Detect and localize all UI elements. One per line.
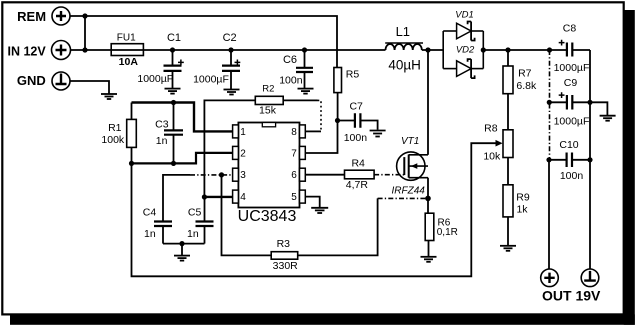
svg-text:6.8k: 6.8k [516, 80, 537, 92]
svg-text:C1: C1 [167, 32, 181, 44]
svg-text:L1: L1 [396, 24, 410, 39]
diode VD1 [443, 9, 483, 40]
resistor R9 [503, 185, 530, 246]
wire ground rail [589, 50, 591, 269]
capacitor C7 [338, 100, 378, 143]
node REM junction [82, 13, 87, 18]
node CS junction [219, 172, 224, 177]
wire CS down to R3 [222, 175, 272, 256]
ground (C6) [298, 89, 314, 94]
svg-text:4,7R: 4,7R [346, 179, 369, 191]
wire pin 3 CS line [163, 175, 190, 222]
svg-text:R9: R9 [516, 191, 530, 203]
capacitor C1 [137, 32, 183, 88]
node C8 left [547, 47, 552, 52]
svg-text:10A: 10A [119, 56, 139, 68]
ground (C7) [370, 131, 386, 137]
fuse FU1 [111, 33, 386, 68]
pin 5 [300, 190, 306, 203]
node diode out [481, 47, 486, 52]
svg-text:C10: C10 [559, 139, 578, 151]
svg-text:100k: 100k [101, 134, 125, 146]
ground (C4/C5) [174, 256, 190, 261]
wire L1 to diodes [422, 49, 443, 51]
wire R2 right to pin 8 (dotted) [283, 99, 317, 101]
node L1 out [425, 47, 430, 52]
ground (R6) [421, 257, 437, 262]
svg-text:40µH: 40µH [388, 58, 421, 73]
svg-text:C7: C7 [349, 100, 363, 112]
terminal IN 12V [7, 41, 70, 60]
wire GND terminal to ground [70, 81, 109, 94]
terminal OUT + [541, 269, 559, 287]
potentiometer R8 [483, 122, 513, 185]
svg-text:1000µF: 1000µF [193, 74, 229, 86]
wiper arrow head [496, 140, 503, 147]
svg-text:C6: C6 [283, 54, 297, 66]
svg-text:1000µF: 1000µF [554, 116, 590, 128]
ground (GND input) [101, 94, 117, 99]
terminal OUT ground [581, 269, 599, 287]
svg-text:IN 12V: IN 12V [7, 44, 46, 58]
wire R4 to gate (dash-dot) [374, 174, 404, 176]
svg-text:UC3843: UC3843 [238, 208, 297, 225]
svg-text:C8: C8 [563, 23, 577, 35]
svg-text:R4: R4 [351, 158, 365, 170]
node VCC junction [335, 118, 340, 123]
svg-text:C5: C5 [188, 207, 202, 219]
svg-text:1000µF: 1000µF [554, 62, 590, 74]
svg-text:100n: 100n [279, 74, 303, 86]
wire pin 1 to comp node [132, 103, 233, 132]
terminal REM [17, 7, 70, 25]
resistor R4 [345, 158, 375, 191]
wire VFB feedback to R8 wiper [132, 143, 500, 276]
node C4/C5 ground junction [179, 241, 184, 246]
capacitor C2 [193, 32, 240, 89]
wire pin4 [204, 196, 232, 198]
svg-text:10k: 10k [483, 151, 501, 163]
inductor L1 [385, 24, 423, 73]
svg-text:2: 2 [240, 148, 246, 159]
node C3 top [171, 100, 176, 105]
wire C9 to ground stub [590, 102, 607, 115]
node 12V junction [82, 47, 87, 52]
wire REM-to-12V vertical [84, 16, 86, 50]
node C3 bottom [171, 161, 176, 166]
resistor R3 [271, 238, 298, 272]
ground (R9) [500, 246, 516, 251]
svg-text:1: 1 [240, 127, 246, 138]
svg-text:5: 5 [291, 192, 297, 203]
svg-text:C4: C4 [143, 207, 157, 219]
diode VD2 [443, 45, 483, 79]
svg-text:R3: R3 [277, 238, 291, 250]
svg-text:R8: R8 [484, 122, 498, 134]
wire drain up to rail [427, 50, 429, 155]
svg-text:6: 6 [291, 170, 297, 181]
wire VCC to pin 7 [305, 121, 337, 154]
resistor R7 [503, 50, 537, 130]
svg-text:100n: 100n [560, 170, 584, 182]
svg-text:1k: 1k [516, 203, 528, 215]
svg-text:1000µF: 1000µF [137, 73, 173, 85]
svg-text:REM: REM [17, 9, 46, 24]
op-amp U1 UC3843 body [238, 123, 300, 226]
pin 3 [233, 168, 239, 181]
svg-text:1n: 1n [144, 228, 156, 240]
capacitor C3 [155, 103, 183, 164]
wire REM to R5 corner [70, 16, 337, 68]
wire VFB to pin 2 [132, 153, 233, 164]
svg-text:C3: C3 [155, 118, 169, 130]
svg-text:3: 3 [240, 170, 246, 181]
wire R3 right to source [298, 198, 378, 255]
svg-text:15k: 15k [259, 105, 277, 117]
resistor R6 [425, 198, 458, 256]
wire pin 5 to ground [305, 197, 319, 208]
svg-text:FU1: FU1 [117, 33, 136, 44]
svg-text:7: 7 [291, 148, 297, 159]
pin 6 [300, 168, 306, 181]
pin 2 [233, 146, 239, 159]
svg-text:R5: R5 [346, 69, 360, 81]
wire pin 6 to R4 [305, 174, 344, 176]
svg-text:R2: R2 [262, 84, 274, 95]
svg-text:VD2: VD2 [456, 45, 475, 56]
capacitor C4 [143, 207, 172, 244]
svg-text:C9: C9 [564, 77, 578, 89]
terminal GND [17, 72, 70, 90]
svg-text:0,1R: 0,1R [437, 227, 458, 238]
wire plus rail (dash-dot) [549, 50, 551, 160]
node pin4 junction [202, 194, 207, 199]
frame shadow [624, 10, 635, 325]
pin 1 [233, 125, 239, 138]
svg-text:IRFZ44: IRFZ44 [392, 186, 426, 197]
resistor R1 [101, 103, 136, 164]
capacitor C10 [546, 139, 592, 182]
wire output rail [483, 49, 567, 51]
svg-text:1n: 1n [187, 228, 199, 240]
ground (C1) [165, 89, 181, 94]
transistor VT1 IRFZ44 [392, 136, 428, 197]
capacitor C5 [187, 197, 213, 244]
pin 7 [300, 146, 306, 159]
capacitor C8 [554, 23, 590, 74]
ground (C2) [224, 90, 240, 95]
svg-text:VT1: VT1 [401, 136, 419, 147]
capacitor C9 [547, 77, 593, 128]
svg-text:GND: GND [17, 73, 46, 88]
svg-text:C2: C2 [223, 32, 237, 44]
diode split verticals [442, 31, 444, 69]
node R1 bottom [129, 161, 134, 166]
resistor R5 [334, 68, 359, 121]
capacitor C6 [279, 47, 313, 88]
wire 12V rail left [71, 49, 112, 51]
svg-text:100n: 100n [344, 132, 368, 144]
svg-text:R7: R7 [518, 67, 532, 79]
wire source down [427, 178, 429, 199]
pin 4 [233, 190, 239, 203]
svg-text:R1: R1 [108, 122, 122, 134]
wire R2 left to pin4 node [204, 100, 255, 197]
svg-text:4: 4 [240, 192, 246, 203]
svg-text:OUT 19V: OUT 19V [542, 288, 601, 304]
wire C4-C5 bottom [163, 243, 205, 245]
svg-text:VD1: VD1 [455, 9, 473, 20]
svg-text:330R: 330R [273, 260, 299, 272]
node R7 top [505, 47, 510, 52]
node source junction [425, 196, 431, 202]
resistor R2 [255, 84, 283, 117]
pin 8 [300, 125, 306, 138]
svg-text:1n: 1n [156, 135, 168, 147]
ground (pin 5) [311, 208, 328, 213]
svg-text:8: 8 [291, 127, 297, 138]
ground (output) [600, 116, 616, 121]
